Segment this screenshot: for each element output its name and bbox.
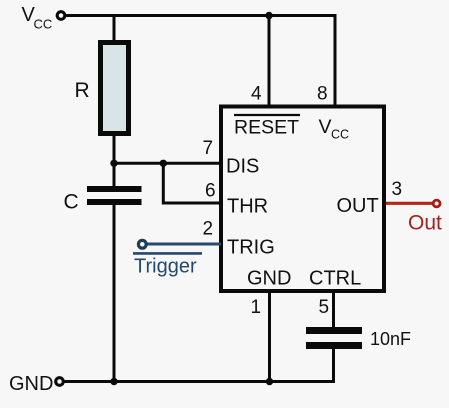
label Trigger (active-low, overbar) <box>133 252 202 255</box>
svg-text:3: 3 <box>392 179 403 200</box>
IC U1 555 timer body <box>221 107 384 292</box>
svg-text:OUT: OUT <box>337 195 379 217</box>
svg-text:RESET: RESET <box>234 117 299 139</box>
svg-text:Trigger: Trigger <box>134 256 197 278</box>
wire resistor top <box>113 14 116 44</box>
wire OUT output (red) <box>386 202 433 205</box>
capacitor 10nF <box>306 327 362 334</box>
svg-text:CTRL: CTRL <box>309 268 361 290</box>
svg-text:R: R <box>75 79 90 102</box>
svg-text:7: 7 <box>203 138 214 159</box>
svg-text:6: 6 <box>205 181 216 202</box>
wire DIS line <box>114 162 221 165</box>
junction dot C / ground rail <box>110 378 117 385</box>
wire C to ground rail <box>113 205 116 383</box>
svg-text:2: 2 <box>203 219 214 240</box>
svg-text:CC: CC <box>331 128 349 142</box>
svg-text:5: 5 <box>319 297 330 318</box>
svg-text:CC: CC <box>34 17 53 32</box>
svg-text:8: 8 <box>317 84 328 105</box>
node VCC supply terminal <box>57 12 65 20</box>
wire 10nF to ground rail <box>332 346 335 383</box>
node GND terminal <box>56 378 64 386</box>
junction dot pin 1 / ground rail <box>266 378 273 385</box>
node Out terminal <box>433 200 440 207</box>
junction dot DIS/THR branch <box>160 160 167 167</box>
wire pin 5 stub (CTRL) <box>332 291 335 330</box>
label RESET (active-low, overbar) <box>234 114 300 116</box>
svg-text:4: 4 <box>251 84 262 105</box>
wire resistor bottom <box>113 133 116 190</box>
node Trigger input terminal <box>138 240 146 248</box>
svg-text:10nF: 10nF <box>370 329 411 349</box>
svg-text:1: 1 <box>251 297 262 318</box>
wire pin 4 stub <box>268 16 271 105</box>
svg-text:V: V <box>319 116 332 138</box>
junction node A (R / C / DIS) <box>110 160 117 167</box>
svg-text:Out: Out <box>408 212 442 235</box>
wire THR branch <box>163 163 221 203</box>
svg-text:TRIG: TRIG <box>227 237 275 259</box>
svg-text:GND: GND <box>9 373 53 395</box>
junction dot top rail / pin 4 <box>265 12 272 19</box>
svg-text:C: C <box>64 191 79 214</box>
svg-text:THR: THR <box>227 196 268 218</box>
resistor R <box>101 43 129 134</box>
svg-text:DIS: DIS <box>226 156 259 178</box>
wire top rail (VCC to pin 8) <box>66 16 336 105</box>
capacitor C <box>87 186 142 192</box>
wire TRIG input (blue) <box>146 243 221 246</box>
wire pin 1 stub (GND) <box>268 291 271 383</box>
wire bottom ground rail <box>64 380 335 383</box>
svg-text:GND: GND <box>247 268 291 290</box>
